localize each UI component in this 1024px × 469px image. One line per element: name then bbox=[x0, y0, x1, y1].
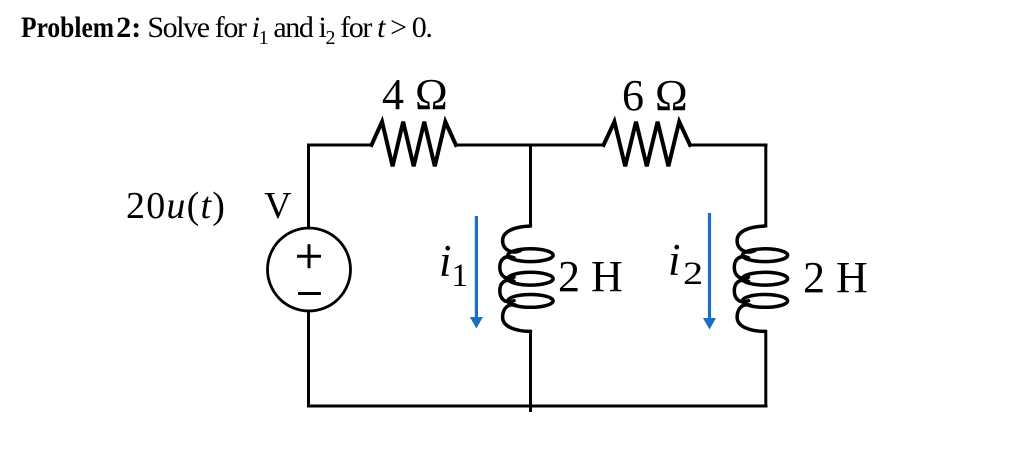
inductor L2 2H coil bbox=[734, 226, 787, 331]
label: current i1 bbox=[439, 239, 468, 284]
label: current i2 bbox=[668, 238, 699, 283]
title: Problem 2 statement bbox=[21, 13, 431, 48]
wire: top-middle segment between resistors bbox=[456, 144, 604, 147]
resistor R2 6 ohm zigzag bbox=[604, 122, 690, 167]
voltage source VS circle 20u(t) bbox=[268, 228, 351, 311]
wire: bottom horizontal bbox=[309, 405, 767, 408]
minus sign of source bbox=[300, 292, 320, 295]
wire: middle vertical from top wire to inductor L1 bbox=[529, 145, 532, 226]
wire: top-right segment from 6-ohm to right corner bbox=[690, 144, 766, 147]
label: inductor value 2 H (right) bbox=[803, 256, 868, 300]
label: resistor value 6 ohm bbox=[622, 74, 688, 118]
label: inductor value 2 H (left) bbox=[558, 255, 623, 299]
label: source value 20u(t) V bbox=[126, 187, 293, 225]
wire: middle vertical from inductor L1 to bottom wire (small tick below) bbox=[529, 331, 532, 410]
current arrow i2 bbox=[704, 213, 715, 329]
current arrow i1 bbox=[471, 216, 482, 328]
wire: top-left segment from left vertical to 4-ohm resistor bbox=[309, 144, 372, 147]
wire: right vertical from top-right corner to inductor L2 bbox=[764, 145, 767, 226]
wire: right vertical from inductor L2 to bottom wire bbox=[764, 331, 767, 406]
inductor L1 2H coil bbox=[500, 226, 553, 331]
plus sign of source bbox=[299, 246, 320, 267]
wire: left vertical from top wire to source top bbox=[307, 145, 310, 228]
label: resistor value 4 ohm bbox=[382, 73, 448, 117]
resistor R1 4 ohm zigzag bbox=[372, 122, 456, 167]
wire: left vertical from source bottom to bottom wire bbox=[307, 311, 310, 406]
